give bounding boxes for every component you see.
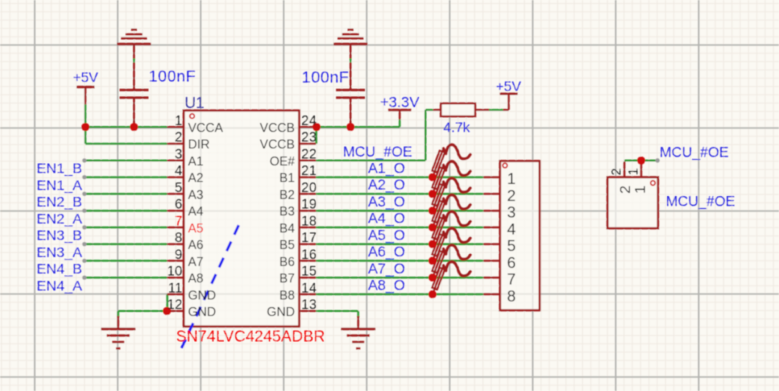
svg-text:3: 3: [175, 147, 183, 162]
svg-text:EN3_A: EN3_A: [37, 245, 83, 261]
svg-text:B1: B1: [279, 171, 294, 185]
svg-text:4: 4: [507, 221, 516, 238]
svg-text:14: 14: [301, 280, 317, 295]
svg-text:EN1_B: EN1_B: [37, 161, 83, 177]
svg-text:A7: A7: [188, 255, 203, 269]
svg-text:GND: GND: [188, 288, 216, 302]
svg-text:+3.3V: +3.3V: [380, 95, 419, 111]
svg-text:EN4_B: EN4_B: [37, 262, 83, 278]
svg-text:A3: A3: [188, 188, 203, 202]
svg-text:+5V: +5V: [73, 69, 99, 85]
svg-text:1: 1: [507, 171, 516, 188]
svg-text:A8_O: A8_O: [368, 278, 405, 294]
svg-text:1: 1: [626, 168, 641, 175]
svg-text:A1_O: A1_O: [368, 161, 405, 177]
svg-text:A2: A2: [188, 171, 203, 185]
svg-text:OE#: OE#: [270, 155, 295, 169]
svg-text:A6_O: A6_O: [368, 245, 405, 261]
svg-text:EN4_A: EN4_A: [37, 278, 83, 294]
svg-text:B6: B6: [279, 255, 294, 269]
svg-text:21: 21: [301, 163, 316, 178]
svg-text:A7_O: A7_O: [368, 261, 405, 277]
svg-text:B3: B3: [279, 205, 294, 219]
svg-text:8: 8: [507, 288, 516, 305]
svg-text:EN2_A: EN2_A: [37, 211, 83, 227]
svg-text:MCU_#OE: MCU_#OE: [343, 145, 412, 161]
svg-text:11: 11: [168, 280, 182, 295]
svg-text:19: 19: [301, 197, 317, 212]
svg-text:4.7k: 4.7k: [443, 119, 470, 135]
svg-text:9: 9: [175, 247, 183, 262]
svg-text:6: 6: [507, 255, 516, 272]
svg-text:GND: GND: [267, 305, 295, 319]
svg-text:B8: B8: [279, 288, 294, 302]
svg-text:4: 4: [175, 163, 183, 178]
svg-text:2: 2: [175, 130, 183, 145]
svg-text:VCCA: VCCA: [188, 121, 224, 135]
svg-text:EN2_B: EN2_B: [37, 195, 83, 211]
svg-text:A3_O: A3_O: [368, 195, 405, 211]
svg-text:A2_O: A2_O: [368, 178, 405, 194]
svg-text:10: 10: [167, 264, 183, 279]
svg-text:EN3_B: EN3_B: [37, 228, 83, 244]
svg-text:17: 17: [301, 230, 316, 245]
svg-text:2: 2: [507, 188, 516, 205]
svg-text:7: 7: [175, 213, 183, 228]
svg-text:12: 12: [167, 297, 182, 312]
svg-text:MCU_#OE: MCU_#OE: [666, 194, 735, 210]
svg-text:100nF: 100nF: [149, 69, 196, 86]
svg-text:A8: A8: [188, 272, 203, 286]
svg-text:3: 3: [507, 205, 516, 222]
svg-text:VCCB: VCCB: [260, 121, 295, 135]
svg-text:DIR: DIR: [188, 138, 210, 152]
svg-text:5: 5: [507, 238, 516, 255]
svg-text:A6: A6: [188, 238, 203, 252]
svg-text:16: 16: [301, 247, 317, 262]
svg-text:2: 2: [609, 168, 624, 175]
svg-text:+5V: +5V: [496, 78, 522, 94]
svg-text:18: 18: [301, 213, 317, 228]
svg-text:VCCB: VCCB: [260, 138, 295, 152]
svg-text:B5: B5: [279, 238, 294, 252]
svg-text:8: 8: [175, 230, 183, 245]
svg-text:GND: GND: [188, 305, 216, 319]
svg-text:A1: A1: [188, 155, 203, 169]
svg-text:A5_O: A5_O: [368, 228, 405, 244]
svg-text:15: 15: [301, 264, 317, 279]
svg-text:SN74LVC4245ADBR: SN74LVC4245ADBR: [176, 328, 325, 345]
svg-text:24: 24: [301, 113, 317, 128]
svg-text:5: 5: [175, 180, 183, 195]
svg-text:B4: B4: [279, 221, 294, 235]
svg-text:B7: B7: [279, 272, 294, 286]
svg-text:MCU_#OE: MCU_#OE: [660, 145, 729, 161]
svg-text:1: 1: [632, 185, 649, 193]
svg-text:13: 13: [301, 297, 317, 312]
svg-text:6: 6: [175, 197, 183, 212]
svg-text:A5: A5: [188, 221, 203, 235]
svg-text:A4: A4: [188, 205, 203, 219]
svg-text:B2: B2: [279, 188, 294, 202]
svg-text:1: 1: [175, 113, 183, 128]
svg-text:7: 7: [507, 272, 516, 289]
svg-text:A4_O: A4_O: [368, 211, 405, 227]
svg-text:23: 23: [301, 130, 317, 145]
svg-text:100nF: 100nF: [302, 69, 349, 86]
svg-text:U1: U1: [185, 95, 205, 112]
svg-text:EN1_A: EN1_A: [37, 178, 83, 194]
svg-text:22: 22: [301, 147, 316, 162]
svg-text:20: 20: [301, 180, 317, 195]
